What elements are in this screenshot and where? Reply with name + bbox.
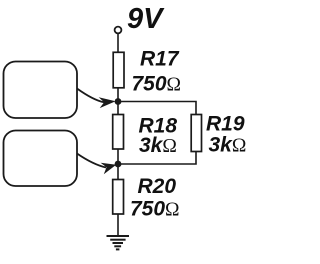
node B junction dot: [115, 161, 122, 168]
svg-text:R19: R19: [206, 113, 245, 136]
wire: node A to R19 top: [118, 102, 196, 115]
ground: [107, 236, 130, 249]
node A junction dot: [115, 98, 122, 105]
resistor R20: [113, 180, 124, 215]
wire: terminal to R17: [117, 34, 119, 53]
svg-text:3kΩ: 3kΩ: [139, 134, 177, 157]
svg-text:R20: R20: [138, 175, 177, 198]
wire: R20 to ground: [117, 214, 119, 236]
wire: node B to R19 bottom: [118, 152, 196, 165]
svg-text:750Ω: 750Ω: [132, 73, 182, 96]
wire: R17 to node A: [117, 88, 119, 115]
arrow: box 2 to node B: [77, 154, 106, 168]
svg-text:750Ω: 750Ω: [130, 198, 180, 221]
arrow: box 1 to node A: [77, 89, 104, 103]
svg-text:R17: R17: [140, 48, 180, 71]
wire: R18 to node B: [117, 149, 119, 180]
callout box 1: [4, 62, 78, 119]
resistor R17: [113, 52, 124, 88]
svg-text:9V: 9V: [127, 3, 165, 35]
callout box 2: [4, 131, 78, 187]
supply terminal 9V: [115, 27, 122, 34]
resistor R18: [113, 115, 124, 150]
resistor R19: [191, 115, 201, 152]
svg-text:3kΩ: 3kΩ: [209, 134, 247, 157]
